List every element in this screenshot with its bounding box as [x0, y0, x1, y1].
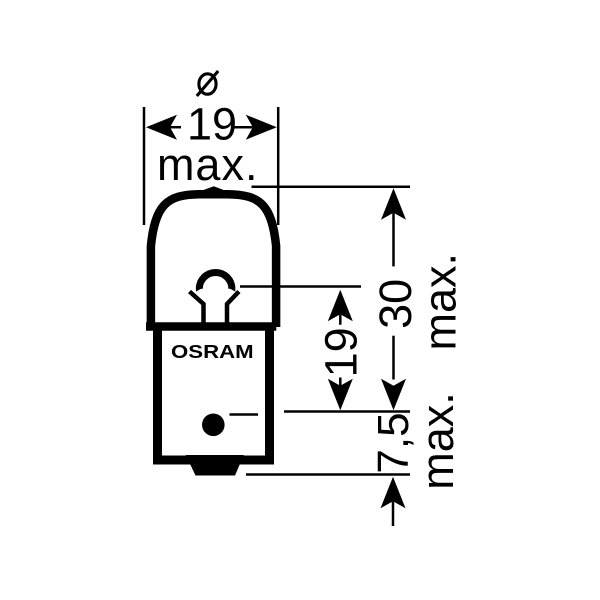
svg-text:max.: max. — [157, 139, 259, 190]
svg-text:max.: max. — [414, 253, 465, 351]
bulb bottom edge — [146, 322, 276, 331]
datum line at contact dot plane — [284, 410, 410, 413]
extension line right of diameter 19 — [277, 107, 280, 225]
dimension line for diameter 19 with arrows — [146, 115, 277, 140]
svg-text:30: 30 — [370, 279, 421, 329]
filament arc left end flare — [196, 288, 203, 292]
filament support wire right — [227, 292, 239, 323]
extension line at bulb top — [252, 185, 411, 188]
svg-text:OSRAM: OSRAM — [171, 341, 254, 362]
dimension 30 vertical: top arrow — [381, 188, 406, 410]
extension line left of diameter 19 — [143, 107, 146, 225]
diameter symbol — [197, 71, 218, 96]
filament arc — [199, 272, 232, 288]
bulb glass envelope — [151, 194, 276, 327]
glass tip nub — [186, 186, 241, 196]
dimension label 7,5 (rotated) — [369, 412, 418, 473]
svg-text:max.: max. — [412, 392, 463, 490]
dimension label 19 vertical (rotated) — [316, 327, 367, 377]
extension line at filament plane — [240, 285, 361, 288]
svg-text:19: 19 — [316, 327, 367, 377]
label max. for 7,5 (rotated) — [412, 392, 463, 490]
filament arc right end flare — [228, 288, 235, 292]
contact dot on base — [202, 414, 225, 437]
OSRAM logo — [171, 341, 254, 362]
leader line from contact dot — [230, 413, 259, 416]
filament support wire left — [190, 292, 204, 323]
bottom solder contact — [186, 455, 244, 476]
base cap outline — [158, 329, 270, 460]
dimension label 30 (rotated) — [370, 279, 421, 329]
dimension 19 vertical: arrows and line — [328, 290, 353, 410]
extension line at bottom contact plane — [246, 473, 410, 476]
dimension 7,5 bottom arrow — [381, 477, 406, 526]
label max. for 30 (rotated) — [414, 253, 465, 351]
svg-text:7,5: 7,5 — [369, 412, 418, 473]
